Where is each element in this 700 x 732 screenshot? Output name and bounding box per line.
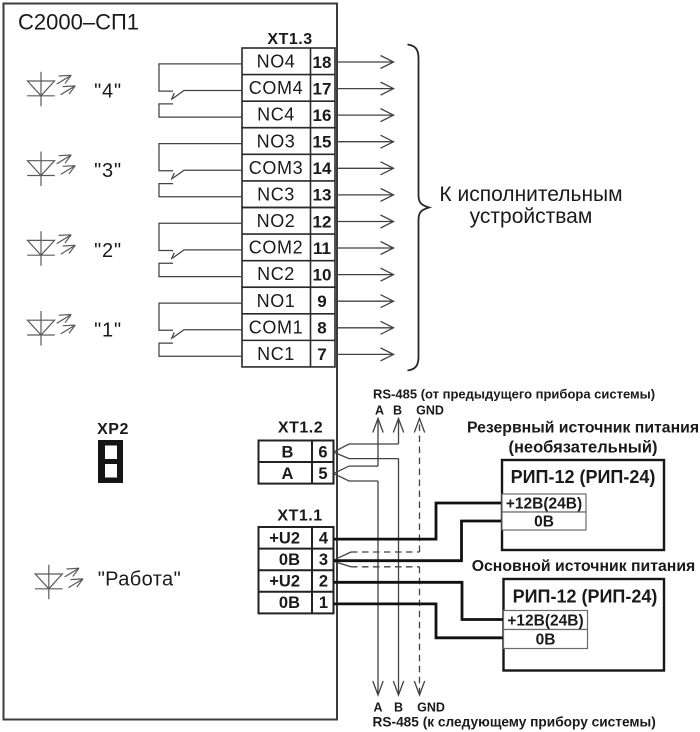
svg-text:В: В xyxy=(282,443,294,461)
svg-text:"4": "4" xyxy=(94,80,122,102)
svg-text:17: 17 xyxy=(313,79,332,98)
svg-text:2: 2 xyxy=(319,573,328,591)
svg-text:7: 7 xyxy=(317,345,326,364)
svg-text:0В: 0В xyxy=(534,514,554,531)
svg-text:устройствам: устройствам xyxy=(470,205,593,228)
wire arrow from pin 10 xyxy=(335,268,394,281)
svg-text:8: 8 xyxy=(317,319,326,338)
LED indicator "2" xyxy=(27,231,75,266)
wire arrow from pin 18 xyxy=(335,56,394,69)
main PSU box RIP-12 xyxy=(504,579,665,671)
svg-text:0В: 0В xyxy=(279,594,300,612)
wire arrow from pin 12 xyxy=(335,215,394,228)
svg-text:0В: 0В xyxy=(536,632,556,649)
svg-text:(необязательный): (необязательный) xyxy=(508,438,657,456)
wire arrow from pin 14 xyxy=(335,162,394,175)
svg-text:16: 16 xyxy=(313,106,332,125)
svg-text:6: 6 xyxy=(318,443,327,461)
svg-text:COM2: COM2 xyxy=(249,238,303,258)
wire arrow from pin 13 xyxy=(335,188,394,201)
svg-text:15: 15 xyxy=(313,133,332,152)
svg-text:А: А xyxy=(282,465,294,483)
LED indicator "3" xyxy=(27,152,75,187)
svg-text:РИП-12 (РИП-24): РИП-12 (РИП-24) xyxy=(511,467,656,487)
svg-text:В: В xyxy=(393,404,402,418)
wire arrow from pin 17 xyxy=(335,82,394,95)
wire arrow from pin 7 xyxy=(335,348,394,361)
svg-text:GND: GND xyxy=(417,701,445,715)
svg-text:+12В(24В): +12В(24В) xyxy=(506,496,582,513)
svg-text:С2000–СП1: С2000–СП1 xyxy=(18,10,139,35)
svg-text:3: 3 xyxy=(319,551,328,569)
wire B up xyxy=(393,419,403,445)
main terminal +12V xyxy=(504,611,588,630)
svg-text:В: В xyxy=(394,701,403,715)
curly brace xyxy=(408,45,430,371)
svg-text:RS-485 (к следующему прибору с: RS-485 (к следующему прибору системы) xyxy=(373,715,656,730)
svg-text:12: 12 xyxy=(313,212,332,231)
svg-text:1: 1 xyxy=(319,594,328,612)
device outline C2000-SP1 xyxy=(4,4,338,720)
wire GND up (dashed) xyxy=(414,419,424,553)
svg-text:+12В(24В): +12В(24В) xyxy=(507,613,583,630)
svg-text:РИП-12 (РИП-24): РИП-12 (РИП-24) xyxy=(513,587,658,607)
svg-text:Основной источник питания: Основной источник питания xyxy=(472,558,696,575)
svg-text:5: 5 xyxy=(318,465,327,483)
svg-text:COM3: COM3 xyxy=(249,158,303,178)
svg-text:COM1: COM1 xyxy=(249,317,303,337)
terminal block XT1.1 xyxy=(259,527,334,613)
wire +U2 pin4 to reserve +12V xyxy=(334,503,502,539)
reserve terminal 0V xyxy=(502,512,586,530)
svg-text:ХТ1.2: ХТ1.2 xyxy=(278,419,323,436)
svg-text:10: 10 xyxy=(313,265,332,284)
relay contact K1 xyxy=(159,303,242,356)
svg-text:ХТ1.1: ХТ1.1 xyxy=(277,508,322,525)
svg-text:RS-485 (от предыдущего прибора: RS-485 (от предыдущего прибора системы) xyxy=(373,387,655,402)
svg-text:GND: GND xyxy=(416,404,444,418)
relay contact K4 xyxy=(159,64,242,117)
svg-text:NC3: NC3 xyxy=(257,185,295,205)
svg-text:NC4: NC4 xyxy=(257,105,295,125)
wire A up xyxy=(373,419,383,467)
relay contact K3 xyxy=(159,144,242,197)
LED indicator "4" xyxy=(27,72,75,107)
svg-text:14: 14 xyxy=(313,159,332,178)
svg-text:ХТ1.3: ХТ1.3 xyxy=(267,31,312,48)
reserve PSU box RIP-12 xyxy=(502,460,664,550)
wire A down xyxy=(373,481,383,695)
wire arrow from pin 9 xyxy=(335,295,394,308)
svg-text:А: А xyxy=(375,404,384,418)
svg-text:+U2: +U2 xyxy=(269,573,300,591)
terminal block XT1.3 xyxy=(242,48,335,367)
wire fan pin 3 to GND (dashed) xyxy=(336,552,420,567)
svg-text:NC2: NC2 xyxy=(257,264,295,284)
wire fan pin 5 to A xyxy=(334,466,379,481)
svg-text:NO4: NO4 xyxy=(257,52,296,72)
wire +U2 pin2 to main +12V xyxy=(334,582,504,619)
svg-text:9: 9 xyxy=(317,292,326,311)
svg-text:"Работа": "Работа" xyxy=(98,569,181,591)
svg-text:"1": "1" xyxy=(94,320,122,342)
wire 0V pin1 to main 0V xyxy=(334,604,504,638)
reserve terminal +12V xyxy=(502,494,586,512)
jumper XP2 xyxy=(98,440,123,483)
svg-text:0В: 0В xyxy=(279,551,300,569)
svg-text:NO3: NO3 xyxy=(257,131,296,151)
LED indicator "Rabota" xyxy=(35,565,83,599)
svg-text:13: 13 xyxy=(313,186,332,205)
svg-text:18: 18 xyxy=(313,53,332,72)
svg-text:Резервный источник питания: Резервный источник питания xyxy=(467,420,699,437)
svg-text:NC1: NC1 xyxy=(257,344,295,364)
wire B down xyxy=(393,459,403,695)
svg-text:"3": "3" xyxy=(94,160,122,182)
svg-text:А: А xyxy=(373,701,382,715)
svg-text:ХР2: ХР2 xyxy=(97,421,129,438)
terminal block XT1.2 xyxy=(259,441,334,484)
wire arrow from pin 11 xyxy=(335,242,394,255)
svg-text:+U2: +U2 xyxy=(269,529,300,547)
wire fan pin 6 to B xyxy=(334,444,399,459)
LED indicator "1" xyxy=(27,311,75,346)
main terminal 0V xyxy=(504,630,588,649)
svg-text:11: 11 xyxy=(313,239,331,258)
wire arrow from pin 15 xyxy=(335,135,394,148)
svg-text:NO2: NO2 xyxy=(257,211,296,231)
svg-text:К исполнительным: К исполнительным xyxy=(439,183,622,206)
svg-text:4: 4 xyxy=(319,529,329,547)
svg-text:"2": "2" xyxy=(94,240,122,262)
wire GND down (dashed) xyxy=(414,567,424,695)
wire arrow from pin 16 xyxy=(335,109,394,122)
wire arrow from pin 8 xyxy=(335,321,394,334)
relay contact K2 xyxy=(159,223,242,276)
svg-text:NO1: NO1 xyxy=(257,291,296,311)
wire 0V pin3 to reserve 0V xyxy=(334,521,502,561)
svg-text:COM4: COM4 xyxy=(249,78,303,98)
